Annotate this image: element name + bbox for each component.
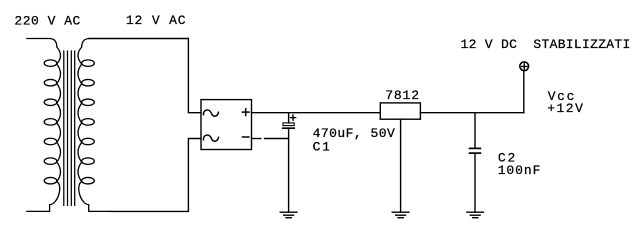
svg-text:+12V: +12V [547, 101, 583, 116]
bridge rectifier plus terminal label [242, 109, 249, 116]
bridge rectifier AC symbol bottom [203, 135, 218, 141]
bridge rectifier B1 body [201, 100, 252, 150]
svg-text:12 V DC STABILIZZATI: 12 V DC STABILIZZATI [461, 37, 631, 52]
capacitor C2 top lead [474, 113, 476, 148]
svg-text:7812: 7812 [385, 88, 419, 103]
transformer T1 secondary winding [78, 39, 110, 212]
regulator U1 ground lead [400, 119, 402, 212]
ground under C2 [467, 212, 484, 218]
transformer T1 core [64, 51, 75, 205]
capacitor C1 polarity plus [290, 115, 295, 120]
svg-text:12 V AC: 12 V AC [126, 13, 186, 28]
output terminal circle [520, 62, 529, 71]
wire secondary top to bridge input [90, 39, 201, 113]
wire regulator output rail [420, 112, 523, 114]
bridge rectifier minus terminal label [243, 136, 249, 138]
wire secondary bottom to bridge input [110, 139, 201, 212]
wire bridge minus output to C1 node [265, 138, 289, 140]
svg-text:C1: C1 [313, 139, 330, 154]
capacitor C1 top plate [283, 123, 294, 126]
wire bridge plus output rail [252, 112, 381, 114]
capacitor C1 top lead [288, 113, 290, 123]
ground under regulator U1 [392, 212, 409, 218]
wire bridge minus output (dash) [252, 138, 261, 140]
transformer T1 primary winding [27, 39, 61, 212]
capacitor C2 bottom plate [470, 152, 481, 154]
capacitor C2 top plate [470, 147, 481, 149]
capacitor C2 bottom lead [474, 154, 476, 212]
wire output riser to terminal [523, 71, 525, 113]
ground under C1 [280, 212, 297, 218]
bridge rectifier AC symbol top [203, 110, 218, 116]
svg-text:220 V AC: 220 V AC [14, 13, 80, 28]
output terminal plus mark [522, 64, 527, 69]
capacitor C1 bottom plate [283, 127, 294, 129]
capacitor C1 bottom lead [288, 129, 290, 212]
regulator U1 7812 body [380, 103, 420, 119]
svg-text:100nF: 100nF [498, 163, 541, 178]
